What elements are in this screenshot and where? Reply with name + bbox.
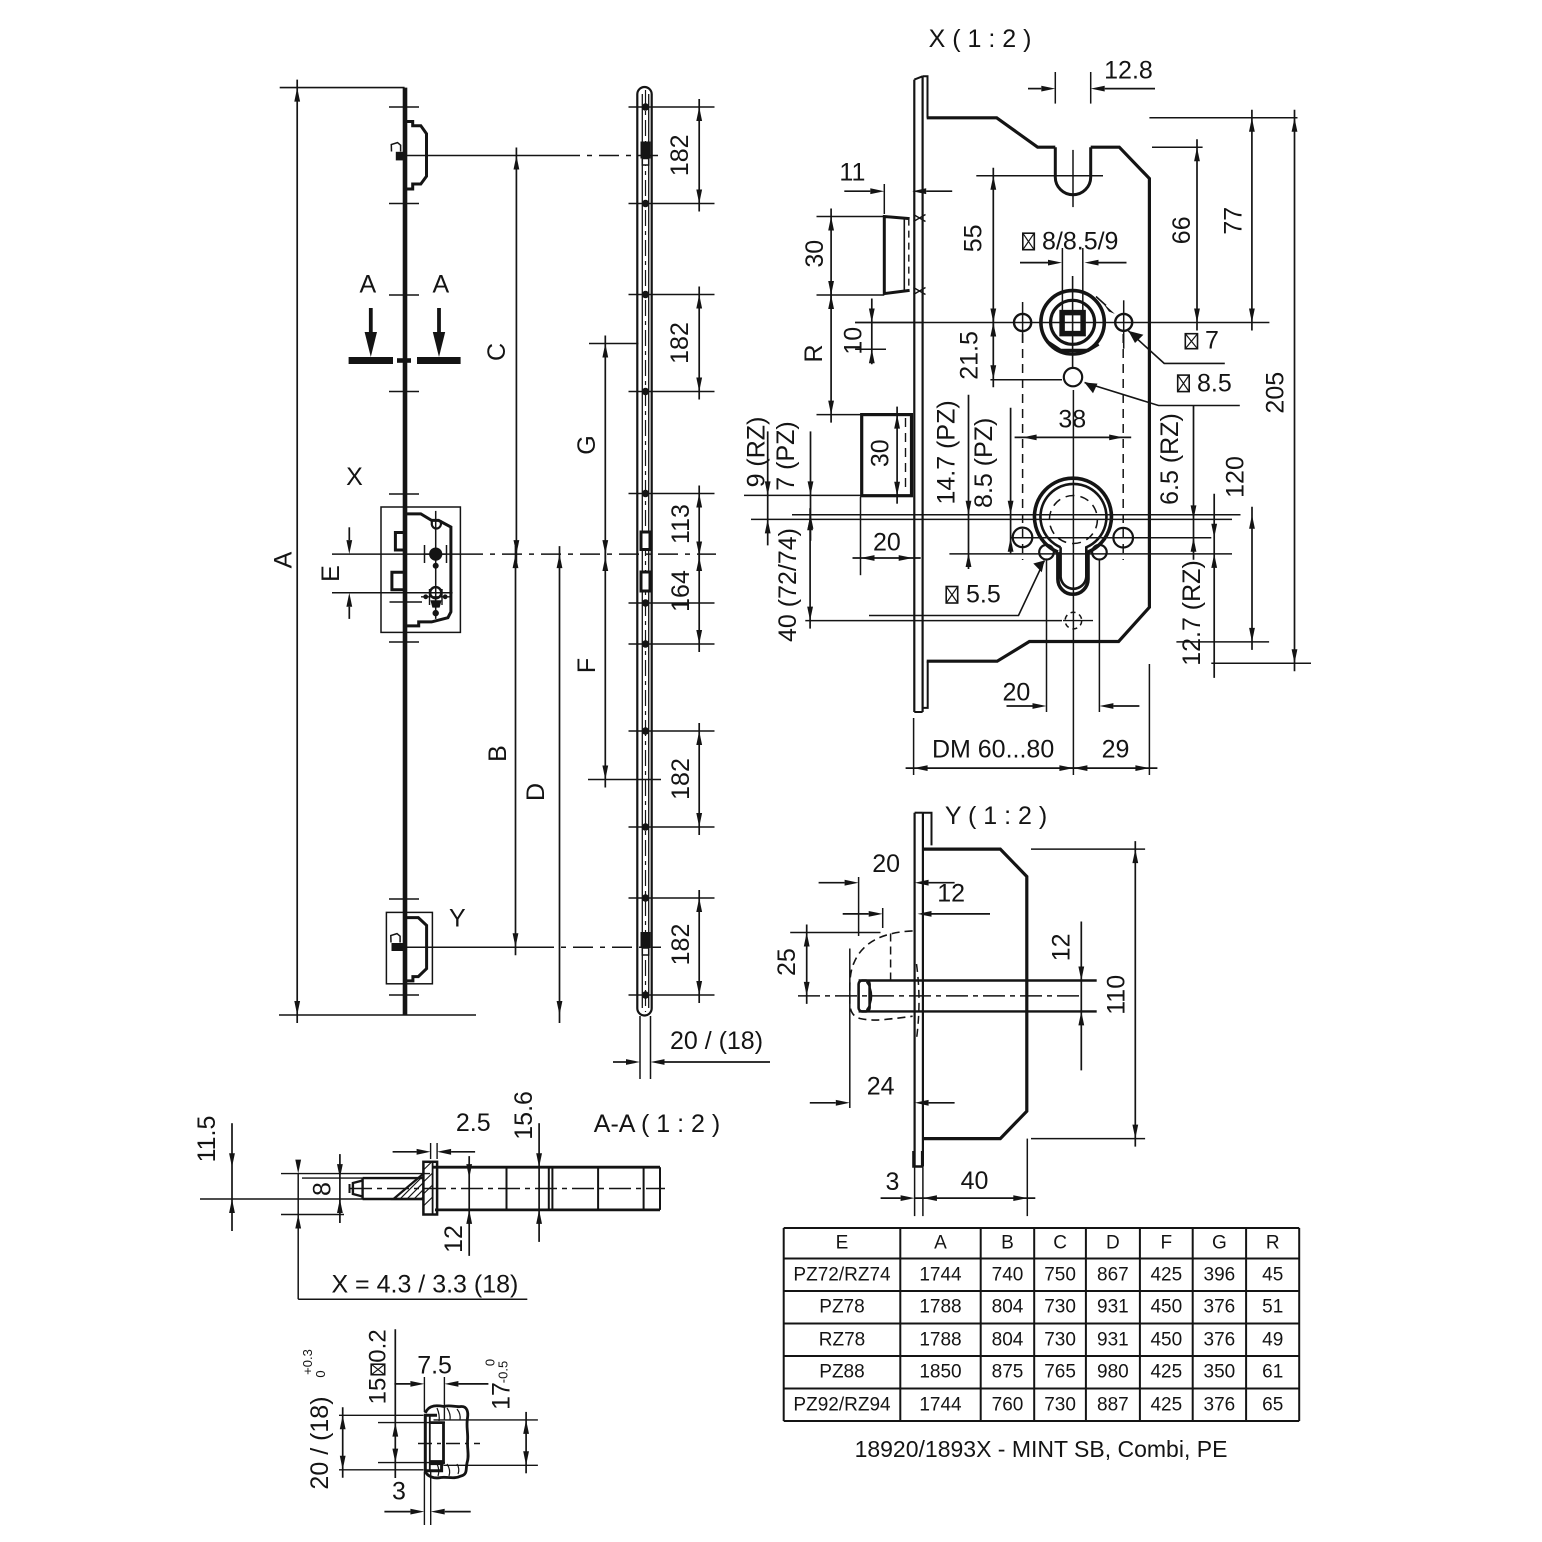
cylinder PZ centerline xyxy=(792,514,1241,516)
A-A bar end line xyxy=(659,1167,661,1210)
svg-text:376: 376 xyxy=(1204,1394,1236,1415)
hook slot centerline xyxy=(1072,150,1074,207)
svg-text:350: 350 xyxy=(1204,1362,1236,1383)
latch head trapezoid (X view) xyxy=(884,217,909,294)
bottom latch snib outline xyxy=(391,934,400,943)
latch opening corner marks xyxy=(914,215,926,222)
66 reference extension line xyxy=(1152,146,1203,148)
Y dim 12 vertical line (slot height) xyxy=(1080,922,1082,1071)
svg-text:X ( 1 : 2 ): X ( 1 : 2 ) xyxy=(929,25,1032,53)
strike dim 7.5 arrows xyxy=(394,1383,410,1385)
strike dim 17 vertical line xyxy=(525,1412,527,1473)
svg-text:G: G xyxy=(573,435,601,454)
left view top extension line xyxy=(280,87,405,89)
svg-text:X: X xyxy=(346,463,363,491)
dim 77 vertical line xyxy=(1251,110,1253,331)
svg-text:A-A ( 1 : 2 ): A-A ( 1 : 2 ) xyxy=(594,1110,720,1138)
svg-text:12: 12 xyxy=(440,1225,468,1253)
svg-text:30: 30 xyxy=(801,240,829,268)
svg-text:7 (PZ): 7 (PZ) xyxy=(772,421,800,490)
A-A dim 2.5 extension lines xyxy=(430,1143,432,1159)
small screw hole left 5.5 xyxy=(1039,545,1054,560)
A-A dim 15.6 vertical line xyxy=(538,1123,540,1242)
svg-text:376: 376 xyxy=(1204,1297,1236,1318)
follower horizontal centerline xyxy=(855,322,1269,324)
Y view dashed arc right of plate xyxy=(917,964,920,1039)
dim E arrows xyxy=(348,527,350,540)
latch 30 dim extension lines xyxy=(817,216,885,218)
Y view latch slot top edge xyxy=(859,979,1097,981)
dim 38 arrows xyxy=(1015,436,1132,438)
svg-text:-0.5: -0.5 xyxy=(496,1361,511,1383)
svg-text:77: 77 xyxy=(1220,207,1248,235)
A-A dim 8 vertical line xyxy=(339,1154,341,1223)
Y view centerline dash-dot xyxy=(798,995,1083,997)
svg-text:1744: 1744 xyxy=(919,1264,962,1285)
bottom latch snib dark block xyxy=(392,943,404,951)
40 dim bottom extension line xyxy=(805,620,1062,622)
dim 205 bottom extension line xyxy=(1211,662,1311,664)
deadbolt hidden edge dashed xyxy=(905,418,907,492)
21.5 bottom extension line xyxy=(990,379,1062,381)
A-A centerline dash-dot xyxy=(350,1188,665,1190)
svg-text:12.8: 12.8 xyxy=(1104,56,1153,84)
svg-text:804: 804 xyxy=(992,1297,1024,1318)
faceplate slot upper (left view) xyxy=(395,533,406,551)
dim G vertical line xyxy=(604,336,606,563)
svg-text:765: 765 xyxy=(1044,1362,1076,1383)
svg-text:25: 25 xyxy=(773,948,801,976)
svg-text:20: 20 xyxy=(1002,678,1030,706)
svg-text:3: 3 xyxy=(885,1168,899,1196)
Y dim 12 horizontal arrows xyxy=(843,913,869,915)
svg-text:R: R xyxy=(1266,1233,1280,1254)
svg-text:11.5: 11.5 xyxy=(193,1116,221,1163)
deadbolt box (X view) xyxy=(862,415,912,496)
svg-text:12: 12 xyxy=(1048,933,1076,961)
svg-text:760: 760 xyxy=(992,1394,1024,1415)
follower square hole xyxy=(1062,313,1083,334)
svg-text:E: E xyxy=(317,565,345,582)
svg-text:3: 3 xyxy=(392,1478,406,1506)
svg-text:G: G xyxy=(1212,1233,1227,1254)
cylinder vertical axis line xyxy=(1072,390,1074,775)
svg-text:66: 66 xyxy=(1168,216,1196,244)
strike detail wood blob outline xyxy=(425,1406,468,1478)
strike dim 7.5 extension lines xyxy=(423,1377,425,1412)
DM dim extension lines xyxy=(913,718,915,775)
dim DM 60...80 arrows xyxy=(906,767,1082,769)
strip width dim 20 / (18) arrows xyxy=(613,1061,626,1063)
svg-text:20: 20 xyxy=(873,528,901,556)
square 7 symbol and label xyxy=(1185,334,1197,349)
svg-text:1744: 1744 xyxy=(919,1394,962,1415)
svg-text:8/8.5/9: 8/8.5/9 xyxy=(1042,228,1118,256)
svg-text:51: 51 xyxy=(1262,1297,1283,1318)
strip rivet holes and ticks xyxy=(642,103,649,110)
Y view hook solid tip xyxy=(859,981,870,1012)
Y dim 110 extension lines xyxy=(1031,848,1145,850)
120 bottom extension line xyxy=(1176,641,1269,643)
dim 12.7 (RZ) vertical line xyxy=(1213,494,1215,678)
svg-text:740: 740 xyxy=(992,1264,1024,1285)
svg-text:1850: 1850 xyxy=(919,1362,961,1383)
svg-text:65: 65 xyxy=(1262,1394,1283,1415)
detail Y boundary box xyxy=(386,912,432,983)
svg-text:A: A xyxy=(270,551,298,568)
svg-text:17: 17 xyxy=(488,1382,516,1410)
dim 8.5 (PZ) vertical line xyxy=(1010,408,1012,554)
A-A extension line 1178 xyxy=(302,1177,363,1179)
Y dim 3 arrows xyxy=(881,1197,901,1199)
svg-text:10: 10 xyxy=(840,327,868,355)
A-A extension line 1199 xyxy=(200,1198,394,1200)
svg-text:55: 55 xyxy=(960,224,988,252)
dim 9 (RZ) vertical line xyxy=(767,431,769,545)
svg-text:A: A xyxy=(934,1233,947,1254)
svg-text:9 (RZ): 9 (RZ) xyxy=(743,417,771,488)
svg-text:40: 40 xyxy=(961,1167,989,1195)
strike dim 20 / (18) extension lines xyxy=(339,1414,424,1416)
svg-text:875: 875 xyxy=(992,1362,1024,1383)
square spindle symbol and label 8/8.5/9 xyxy=(1023,233,1035,250)
X note leader vertical xyxy=(297,1174,299,1300)
dim 38 dashed extension lines xyxy=(1022,334,1024,560)
cylinder dashed circle xyxy=(1049,496,1097,544)
dim 12.8 arrows xyxy=(1028,88,1041,90)
deadbolt top extension line xyxy=(817,414,862,416)
guide rail strip outline (stadium shape) xyxy=(637,87,651,1016)
backset 20 dim extension line xyxy=(860,497,862,575)
Y dim 40 extension line xyxy=(1026,1139,1028,1217)
svg-text:804: 804 xyxy=(992,1329,1024,1350)
screw holes line 553.9 xyxy=(949,553,1232,555)
Y dim 25 vertical line xyxy=(806,925,808,1004)
deadbolt 30 dim xyxy=(896,407,898,504)
A-A bar top edge xyxy=(433,1166,660,1169)
svg-text:24: 24 xyxy=(867,1072,895,1100)
A-A dim 11.5 vertical line xyxy=(231,1123,233,1231)
svg-text:20 / (18): 20 / (18) xyxy=(306,1396,334,1489)
dim 29 arrows xyxy=(1065,767,1157,769)
svg-text:C: C xyxy=(483,343,511,361)
svg-text:750: 750 xyxy=(1044,1264,1076,1285)
dim 20 (cylinder screws) arrows xyxy=(1007,705,1033,707)
svg-text:0.2: 0.2 xyxy=(365,1329,392,1362)
strike detail thin lines xyxy=(378,1422,445,1424)
dim 10 bottom extension line xyxy=(855,348,886,350)
cylinder bottom blob xyxy=(430,600,441,607)
Y view faceplate top lug xyxy=(923,813,932,846)
svg-text:B: B xyxy=(1001,1233,1014,1254)
Y dim 24 extension line xyxy=(849,949,851,1109)
top latch centerline (solid then dash-dot to strip) xyxy=(406,155,560,157)
strip dim 182 (top) xyxy=(698,99,700,212)
svg-text:12.7 (RZ): 12.7 (RZ) xyxy=(1178,560,1206,666)
strike dim 3 extension lines xyxy=(423,1472,425,1525)
dim 40 (72/74) vertical line xyxy=(809,508,811,628)
svg-text:730: 730 xyxy=(1044,1394,1076,1415)
svg-text:R: R xyxy=(800,344,828,362)
follower axis vertical line (left view) xyxy=(435,511,437,619)
top latch snib dark block xyxy=(396,152,406,161)
svg-text:A: A xyxy=(360,271,377,299)
Y dim 24 arrows xyxy=(810,1102,836,1104)
svg-text:61: 61 xyxy=(1262,1362,1283,1383)
strip slot 3 xyxy=(641,572,650,591)
svg-text:14.7 (PZ): 14.7 (PZ) xyxy=(932,400,960,504)
section cut A-A: dash across faceplate xyxy=(397,358,411,363)
Y dim 20 arrows xyxy=(819,882,845,884)
strike centerline dash-dot xyxy=(418,1443,480,1445)
svg-text:182: 182 xyxy=(666,134,694,176)
dim B vertical line xyxy=(515,546,517,955)
auxiliary line below cylinder (left view) xyxy=(390,601,423,603)
svg-text:40 (72/74): 40 (72/74) xyxy=(774,528,802,642)
cylinder centerline extension (E dim reference) xyxy=(332,592,453,594)
Y view faceplate bottom end cap xyxy=(914,1151,923,1167)
bottom latch centerline (solid then dash-dot to strip) xyxy=(406,946,534,948)
svg-text:E: E xyxy=(836,1233,849,1254)
A-A extension line 1173.6 xyxy=(281,1173,430,1175)
top latch body (left view) xyxy=(405,122,427,190)
leader for square 5.5 hole xyxy=(869,561,1044,616)
svg-text:45: 45 xyxy=(1262,1264,1283,1285)
svg-text:D: D xyxy=(522,783,550,801)
svg-text:Y ( 1 : 2 ): Y ( 1 : 2 ) xyxy=(945,802,1047,830)
svg-text:12: 12 xyxy=(937,880,965,908)
strike dim 20 / (18) vertical line xyxy=(342,1407,344,1478)
strike dim 15 with square 0.2 vertical line xyxy=(394,1329,396,1478)
svg-text:11: 11 xyxy=(839,159,865,187)
svg-text:730: 730 xyxy=(1044,1329,1076,1350)
svg-text:7: 7 xyxy=(1205,327,1219,355)
svg-text:396: 396 xyxy=(1204,1264,1236,1285)
svg-text:980: 980 xyxy=(1097,1362,1129,1383)
A-A faceplate cross-section xyxy=(423,1162,437,1215)
svg-text:376: 376 xyxy=(1204,1329,1236,1350)
cylinder screw extension lines xyxy=(1046,560,1048,713)
cylinder RZ centerline xyxy=(751,518,1232,520)
svg-text:15: 15 xyxy=(365,1378,392,1405)
svg-text:8: 8 xyxy=(309,1182,337,1196)
dim 7 (PZ) vertical line xyxy=(810,431,812,540)
strike dim 17 extension lines xyxy=(434,1419,538,1421)
follower middle circle xyxy=(1051,300,1095,344)
svg-text:113: 113 xyxy=(667,504,695,544)
dim 10 vertical line xyxy=(871,299,873,365)
main lock case outline (left view) xyxy=(407,514,451,626)
cylinder side dots xyxy=(423,594,428,599)
X view faceplate bottom lug xyxy=(923,661,928,708)
svg-text:867: 867 xyxy=(1097,1264,1129,1285)
strip slot 4 (filled with window) xyxy=(641,932,651,948)
svg-text:450: 450 xyxy=(1150,1297,1182,1318)
dim 6.5 (RZ) vertical line xyxy=(1193,405,1195,559)
X view hook slot (U shape) in case top xyxy=(1055,147,1090,195)
svg-text:RZ78: RZ78 xyxy=(819,1329,865,1350)
svg-text:450: 450 xyxy=(1150,1329,1182,1350)
specification table xyxy=(784,1227,1299,1229)
Y dim 110 vertical line xyxy=(1134,841,1136,1147)
svg-text:931: 931 xyxy=(1097,1297,1129,1318)
follower nut filled dot xyxy=(429,548,442,561)
cylinder circle (left view) xyxy=(430,587,441,598)
svg-text:120: 120 xyxy=(1222,456,1250,498)
svg-text:1788: 1788 xyxy=(919,1329,961,1350)
hole below follower (8.5) xyxy=(1064,368,1082,386)
strike blob hatching top xyxy=(437,1408,460,1421)
follower outer contour xyxy=(1041,291,1104,354)
svg-text:PZ88: PZ88 xyxy=(819,1362,864,1383)
svg-text:6.5 (RZ): 6.5 (RZ) xyxy=(1156,413,1184,505)
cylinder cross ticks xyxy=(421,596,450,598)
svg-text:931: 931 xyxy=(1097,1329,1129,1350)
Y dim 20 extension line xyxy=(858,877,860,936)
dim C vertical line xyxy=(515,148,517,563)
strike channel profile xyxy=(425,1415,441,1470)
X view faceplate lines xyxy=(913,80,915,712)
A-A faceplate hatching xyxy=(423,1161,432,1170)
faceplate slot lower (left view) xyxy=(392,572,406,590)
dashed hole below cylinder xyxy=(1065,612,1082,629)
svg-text:18920/1893X - MINT SB, Combi,: 18920/1893X - MINT SB, Combi, PE xyxy=(855,1436,1228,1462)
strike dim 3 arrows xyxy=(384,1511,410,1513)
dim 55 vertical line xyxy=(992,168,994,331)
svg-text:A: A xyxy=(432,271,449,299)
svg-text:F: F xyxy=(1160,1233,1172,1254)
section cut A-A: left arrow stem and head xyxy=(369,308,373,334)
G reference tick on strip xyxy=(589,343,639,345)
strip width dim 20 / (18) extension lines xyxy=(639,1016,641,1079)
dim D vertical line xyxy=(559,546,561,1023)
screw hole right of follower xyxy=(1115,314,1132,331)
dim 11 arrows xyxy=(844,190,870,192)
follower cross ticks xyxy=(423,553,446,555)
section cut A-A: right arrow stem and head xyxy=(437,308,441,334)
main centerline (solid through case then dash-dot) xyxy=(332,553,463,555)
svg-text:0: 0 xyxy=(313,1370,328,1377)
A-A dim 12 vertical line xyxy=(468,1156,470,1256)
dim 66 vertical line xyxy=(1196,139,1198,330)
Y view lock case outline xyxy=(923,849,1027,1139)
svg-text:7.5: 7.5 xyxy=(417,1351,452,1379)
leader for square 8.5 hole xyxy=(1085,383,1240,406)
svg-text:164: 164 xyxy=(667,570,695,612)
bottom latch body (left view) xyxy=(405,918,426,981)
svg-text:205: 205 xyxy=(1261,372,1289,414)
strip dim 164 xyxy=(698,549,700,652)
dim 10 extension line (follower CL) xyxy=(855,322,922,324)
short leader arrow at right screw hole xyxy=(1096,297,1106,306)
backset 20 dim arrows xyxy=(853,557,921,559)
svg-text:182: 182 xyxy=(666,322,694,364)
Y dim 40 arrows xyxy=(915,1197,1035,1199)
Y view faceplate lines xyxy=(913,813,915,1167)
small dot below follower xyxy=(433,563,439,569)
A-A latch wedge xyxy=(394,1174,424,1199)
svg-text:C: C xyxy=(1053,1233,1067,1254)
section cut A-A: left thick bar xyxy=(349,357,393,364)
svg-text:F: F xyxy=(573,658,601,673)
small screw hole right 5.5 xyxy=(1092,545,1107,560)
cylinder profile outer keyhole xyxy=(1034,478,1111,594)
leader for square 7 hole xyxy=(1128,331,1224,364)
cylinder fixing hole right xyxy=(1113,528,1133,548)
strip slot 2 xyxy=(641,532,650,550)
dim 14.7 (PZ) vertical line xyxy=(968,395,970,569)
Y view latch slot bottom edge xyxy=(859,1010,1097,1012)
A-A dim 2.5 arrows xyxy=(393,1151,417,1153)
F reference tick on strip xyxy=(588,779,661,781)
top latch snib detail outline xyxy=(391,143,400,152)
X view lock case outline xyxy=(927,118,1056,147)
A-A pin nose xyxy=(353,1181,363,1197)
Y view hidden hook outline (dashed) xyxy=(850,931,913,1020)
svg-text:49: 49 xyxy=(1262,1329,1283,1350)
svg-text:5.5: 5.5 xyxy=(966,581,1001,609)
55 reference extension line xyxy=(976,175,1103,177)
deadbolt bottom extension line xyxy=(744,494,911,496)
svg-text:D: D xyxy=(1106,1233,1120,1254)
square 8.5 symbol and label xyxy=(1178,375,1190,392)
A-A section dividers xyxy=(506,1167,508,1210)
Y dim 3 extension lines xyxy=(914,1168,916,1217)
fixing holes line 537.7 xyxy=(1011,537,1212,539)
strip dim 182 (bottom) xyxy=(698,890,700,1003)
svg-text:PZ72/RZ74: PZ72/RZ74 xyxy=(793,1264,891,1285)
strip dim 182 (second) xyxy=(698,287,700,400)
Y view hidden vertical dashed line xyxy=(890,934,892,981)
follower vertical axis line xyxy=(1072,276,1074,369)
svg-text:182: 182 xyxy=(667,758,695,800)
latch bevel line xyxy=(903,219,905,290)
svg-text:1788: 1788 xyxy=(919,1297,961,1318)
latch hidden line dashed xyxy=(908,219,910,291)
cylinder bottom dot xyxy=(433,610,439,616)
svg-text:425: 425 xyxy=(1150,1394,1182,1415)
A-A bar bottom edge xyxy=(435,1209,660,1212)
X note underline xyxy=(298,1298,527,1300)
left elevation view: faceplate edge (thick vertical line) xyxy=(403,88,408,1015)
svg-text:8.5: 8.5 xyxy=(1197,369,1232,397)
svg-text:Y: Y xyxy=(449,905,466,933)
svg-text:B: B xyxy=(484,745,512,762)
square 5.5 symbol and label xyxy=(946,587,958,604)
svg-text:887: 887 xyxy=(1097,1394,1129,1415)
strip vertical centerline dash-dot xyxy=(645,90,647,1012)
svg-text:PZ92/RZ94: PZ92/RZ94 xyxy=(793,1394,891,1415)
Y dim 25 extension line xyxy=(790,932,880,934)
svg-text:182: 182 xyxy=(667,924,695,966)
strip slot 1 (filled with window) xyxy=(641,142,651,159)
dim 21.5 vertical line xyxy=(992,315,994,388)
dim 30 (latch) vertical line xyxy=(830,209,832,304)
svg-text:30: 30 xyxy=(866,439,894,467)
svg-text:425: 425 xyxy=(1150,1264,1182,1285)
svg-text:110: 110 xyxy=(1103,975,1131,1015)
svg-text:21.5: 21.5 xyxy=(956,331,984,380)
A-A pin body xyxy=(363,1178,424,1199)
dim 11 extension line xyxy=(883,184,885,214)
svg-text:15.6: 15.6 xyxy=(510,1091,538,1140)
screw hole left of follower xyxy=(1014,314,1031,331)
dim 12.8 extension lines xyxy=(1054,72,1056,104)
X view faceplate top lug xyxy=(923,76,928,118)
dim A vertical dimension line xyxy=(296,80,298,1023)
dim F vertical line xyxy=(604,549,606,788)
svg-text:29: 29 xyxy=(1102,735,1130,763)
